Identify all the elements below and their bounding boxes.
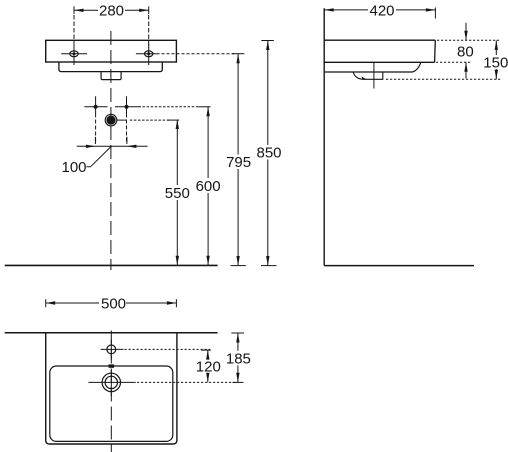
svg-text:150: 150 [483, 54, 508, 71]
svg-text:100: 100 [61, 159, 86, 176]
svg-text:600: 600 [196, 178, 221, 195]
svg-text:795: 795 [226, 154, 251, 171]
svg-text:500: 500 [101, 295, 126, 312]
svg-text:280: 280 [99, 3, 124, 20]
svg-text:80: 80 [457, 44, 474, 61]
svg-text:185: 185 [226, 351, 251, 368]
svg-text:120: 120 [196, 359, 221, 376]
svg-text:420: 420 [369, 2, 394, 19]
svg-text:550: 550 [165, 185, 190, 202]
svg-text:850: 850 [256, 145, 281, 162]
